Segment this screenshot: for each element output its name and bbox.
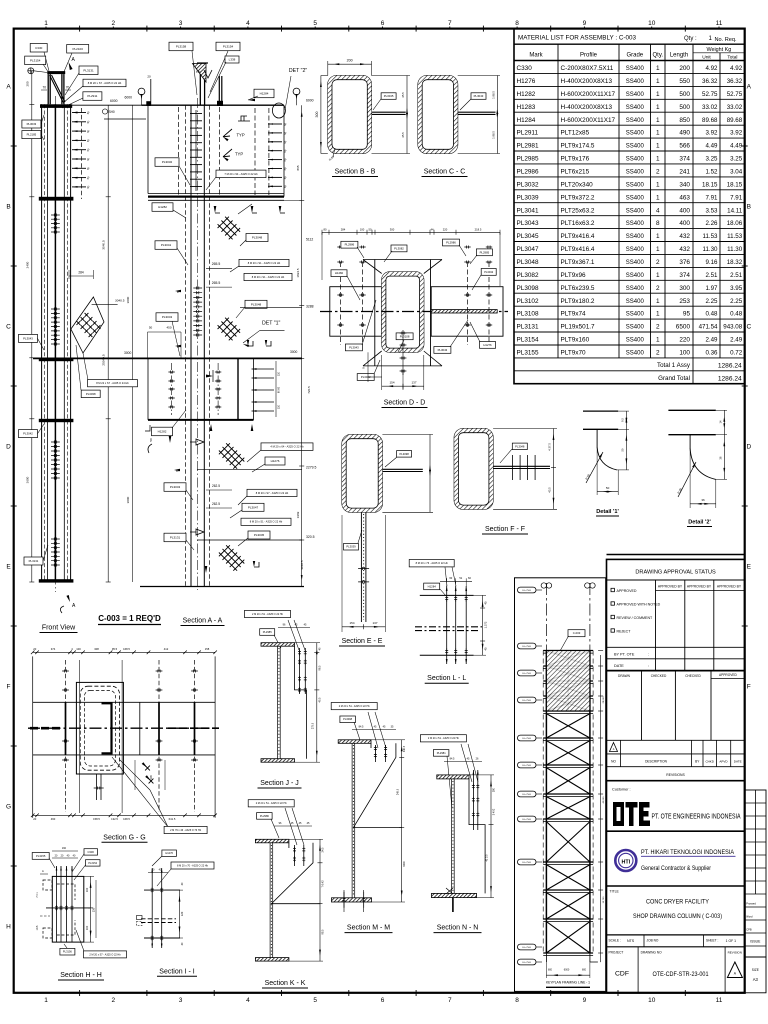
svg-text:SS400: SS400 [626,338,645,344]
svg-text:ISSUE: ISSUE [750,940,761,944]
svg-text:DATE: DATE [734,759,742,763]
svg-text:7: 7 [448,20,452,27]
svg-text:33.02: 33.02 [727,104,743,111]
svg-text:7 4 1: 7 4 1 [36,892,39,898]
svg-text:D: D [6,443,11,450]
svg-text:PLT9x180.2: PLT9x180.2 [561,298,595,305]
svg-text:PL3033: PL3033 [27,122,37,126]
section K-K web [269,843,271,958]
front view left tag PL2185 [22,131,41,139]
section D-D label H1282 [331,270,347,277]
svg-text:PL3032: PL3032 [162,160,173,164]
svg-text:Section E - E: Section E - E [342,638,383,645]
svg-text:2.49: 2.49 [730,337,743,344]
svg-text:EL+7500: EL+7500 [523,673,532,675]
svg-text:DRAWING NO: DRAWING NO [641,950,662,954]
section A-A arrows row3 [210,424,213,431]
svg-text:9: 9 [583,997,587,1004]
svg-text:2: 2 [656,324,660,331]
svg-text:JOB NO: JOB NO [647,939,659,943]
svg-text:H: H [6,923,11,930]
table header row [514,60,745,62]
section E-E stem bolt ticks [358,567,369,570]
svg-text:45,000: 45,000 [603,796,605,803]
svg-text:6000: 6000 [110,99,118,103]
keyplan bottom leader [590,961,601,963]
front view bolt tick clusters [51,214,60,217]
svg-text:10.5: 10.5 [36,925,39,930]
svg-text:PLT9x372.2: PLT9x372.2 [561,194,595,201]
svg-text:4.92: 4.92 [705,65,718,72]
svg-text:100: 100 [679,350,690,357]
svg-text:EL+7500: EL+7500 [523,700,532,702]
svg-text:3000: 3000 [124,351,132,355]
svg-text:220: 220 [679,337,690,344]
front view label PL2911 [83,92,102,101]
svg-text:1: 1 [656,311,660,318]
section A-A label PL3032 [155,158,179,167]
svg-text:34.5: 34.5 [322,847,325,852]
svg-text:4: 4 [246,997,250,1004]
svg-text:PLT9x174.5: PLT9x174.5 [561,143,595,150]
svg-text:PL2911: PL2911 [87,94,97,98]
svg-text:230: 230 [92,907,96,912]
svg-text:SS400: SS400 [626,157,645,163]
svg-text:50: 50 [149,326,153,330]
svg-text:PL3043: PL3043 [349,345,359,349]
svg-text:8 M 20 x S1 - A325 O 22 Hb: 8 M 20 x S1 - A325 O 22 Hb [248,261,281,265]
svg-text:284: 284 [341,227,346,231]
svg-text:3000: 3000 [126,496,130,503]
svg-text:SS400: SS400 [626,260,645,266]
svg-text:1 OF 1: 1 OF 1 [726,939,736,943]
svg-text:8 M 20 x S7 - A325 O 22 Hb: 8 M 20 x S7 - A325 O 22 Hb [256,491,289,495]
section L-L top dims [446,578,448,592]
svg-text:PLT9x367.1: PLT9x367.1 [561,259,595,266]
section A-A label boltspec r1 [239,259,289,266]
svg-text:1 88.5: 1 88.5 [492,131,496,139]
section E-E ext dim right [429,435,431,513]
detail 2 dim right lower [716,478,727,480]
front view right dimension line [107,105,109,582]
svg-text:SS400: SS400 [626,170,645,176]
svg-text:2: 2 [656,169,660,176]
section A-A level line 3288 [240,307,302,309]
front view column hidden lines [44,104,46,582]
svg-text:1: 1 [709,35,713,42]
section A-A label boltspec64 [261,443,313,451]
svg-text:154: 154 [389,381,394,385]
svg-text:4.49: 4.49 [730,143,743,150]
section D-D label H1276 [480,342,496,349]
svg-text:PL2911: PL2911 [517,130,539,137]
svg-text:PL3043: PL3043 [170,485,181,489]
approval by columns [655,580,657,671]
svg-text::: : [648,653,649,657]
svg-text:F: F [747,683,751,690]
section G-G small stem below [96,774,98,800]
datum bubble left [138,88,145,95]
svg-text:PL3082: PL3082 [394,246,404,250]
svg-text:PLT9x416.4: PLT9x416.4 [561,246,595,253]
svg-text:CHKD: CHKD [705,759,714,763]
svg-text:2: 2 [111,997,115,1004]
section L-L top plate line [420,594,474,596]
svg-text:PLT16x63.2: PLT16x63.2 [561,220,595,227]
section A-A centerline [197,98,199,590]
svg-text:50: 50 [369,227,372,231]
svg-text:DET "1": DET "1" [262,321,280,327]
svg-text:137: 137 [372,621,377,625]
svg-text:1969: 1969 [296,511,300,518]
svg-text:REJECT: REJECT [617,630,632,634]
datum bubble right [293,88,300,95]
size box [745,957,766,993]
svg-text:20: 20 [33,817,36,821]
svg-text:154: 154 [349,621,354,625]
svg-text:1: 1 [656,143,660,150]
svg-text:2: 2 [111,20,115,27]
section M-M bolt columns [374,745,376,762]
svg-text:6000: 6000 [306,99,314,103]
section A-A weld symbol top [238,116,250,121]
svg-text:308: 308 [94,647,99,651]
section D-D label PL3082 [391,245,407,252]
svg-text:1: 1 [656,78,660,85]
keyplan column tag C-003 [568,630,585,637]
svg-text:PT. HIKARI TEKNOLOGI INDONESIA: PT. HIKARI TEKNOLOGI INDONESIA [641,849,734,856]
detail 2 flange cut line [689,435,691,448]
section D-D centerline [320,311,508,313]
svg-text:C-003 = 1 REQ'D: C-003 = 1 REQ'D [98,614,161,623]
svg-text:70: 70 [43,86,47,90]
keyplan elevation tags [518,587,537,593]
svg-text:SS400: SS400 [626,247,645,253]
section A-A cap dim 20 [150,79,152,105]
svg-text:8 M 22 x S7 - A325 O 24 Hb: 8 M 22 x S7 - A325 O 24 Hb [96,381,129,385]
svg-text:SIZE: SIZE [752,968,759,972]
svg-text:Length: Length [670,53,688,59]
svg-text:PLT9x176: PLT9x176 [561,156,590,163]
section B-B tube [328,76,372,154]
svg-text:EL+7500: EL+7500 [523,794,532,796]
section F-F gusset plate [493,465,550,467]
svg-text:18.32: 18.32 [727,259,743,266]
section A-A extra dashed vertical [219,107,221,195]
front view dim 3040.5 [92,304,118,306]
section I-I bolt verticals [151,868,153,948]
svg-text:DRAWN: DRAWN [618,674,631,678]
svg-text:432: 432 [679,246,690,253]
svg-text:C330: C330 [35,46,43,50]
svg-text:2 M 20 x 51 - A325 O 22 Hb: 2 M 20 x 51 - A325 O 22 Hb [339,705,371,708]
section A-A column hidden lines [185,105,187,586]
svg-text:374: 374 [679,156,690,163]
section N-N bottom flange [432,893,477,897]
keyplan grid bubbles [541,583,546,588]
svg-text:11.30: 11.30 [702,246,718,253]
svg-text:36.32: 36.32 [702,78,718,85]
svg-text:641.5: 641.5 [169,817,176,821]
section G-G C channel [102,703,112,753]
svg-text:H1283: H1283 [517,104,536,111]
detail 1 dim right upper [618,410,629,412]
detail 1 flange cut line [596,429,598,447]
svg-text:2.26: 2.26 [705,220,718,227]
svg-text:1: 1 [44,20,48,27]
front view label PL3038 [81,390,100,398]
front view flag leaders [83,353,88,380]
svg-text:H-600X200X11X17: H-600X200X11X17 [561,91,616,98]
svg-text:1286.24: 1286.24 [718,362,742,369]
svg-text:H1284: H1284 [260,92,269,96]
svg-text:PL2986: PL2986 [517,169,539,176]
front view top cap stubs [47,74,49,104]
svg-text:1286.24: 1286.24 [718,375,742,382]
section M-M bottom flange [332,898,372,902]
svg-text:137: 137 [411,381,416,385]
svg-text:96.5: 96.5 [318,665,321,670]
svg-text:6000: 6000 [564,969,570,972]
svg-text:100: 100 [85,887,89,892]
svg-text:110: 110 [278,371,281,376]
front view right bolt ladder [72,112,86,114]
section A-A label H1276 [265,457,285,465]
svg-text:1: 1 [656,65,660,72]
svg-text:SHEET :: SHEET : [706,939,718,943]
svg-text:28,000: 28,000 [603,696,605,703]
svg-text:2: 2 [656,350,660,357]
svg-text:41 3.5: 41 3.5 [486,854,489,862]
section A-A sect arrow B low [253,561,255,567]
svg-text:95.5: 95.5 [112,647,118,651]
svg-text:265.5: 265.5 [212,281,221,285]
svg-text:10: 10 [648,997,656,1004]
section A-A sect arrow C [174,469,180,471]
svg-text:PLT9x70: PLT9x70 [561,350,587,357]
svg-text:40.5: 40.5 [318,697,321,702]
svg-text:CHECKED: CHECKED [685,674,701,678]
section L-L bottom plate line [420,654,474,656]
section D-D left beam rect [330,287,382,337]
svg-text:NO: NO [611,759,616,763]
svg-text:PL3045: PL3045 [384,94,394,98]
svg-text:20: 20 [33,647,36,651]
svg-text:0.48: 0.48 [730,311,743,318]
section H-H right dims [90,876,92,942]
svg-text:25049.5: 25049.5 [102,354,106,365]
project row [607,946,745,948]
svg-text:APPROVED BY: APPROVED BY [717,585,742,589]
svg-text:PL3154: PL3154 [517,337,539,344]
second dimension line [131,105,133,582]
HTI logo circle [615,850,636,871]
keyplan truss X bracing [546,714,590,738]
section D-D left bolt lines [340,262,342,345]
section A-A lower bracket dims [145,425,150,431]
svg-text:18.06: 18.06 [727,220,743,227]
svg-text:KEYPLAN FRAMING LINE - 1: KEYPLAN FRAMING LINE - 1 [546,980,590,984]
svg-text:HTI: HTI [621,859,630,865]
svg-text:1.97: 1.97 [705,285,718,292]
svg-text:253: 253 [679,298,690,305]
svg-text:200: 200 [347,59,353,63]
svg-text:4.49: 4.49 [705,143,718,150]
section H-H bolt spec label [84,951,127,958]
front view label C330 [30,44,47,53]
svg-text:Total: Total [727,55,737,61]
table totals rows [514,370,745,372]
front view ladder dashed vertical [81,108,83,199]
section J-J bolt spec label [245,610,291,617]
front view center web line [54,104,56,582]
svg-text:14.11: 14.11 [727,207,743,214]
svg-text:PL3098: PL3098 [343,717,353,721]
svg-text:18.15: 18.15 [727,181,743,188]
svg-text:340: 340 [679,181,690,188]
keyplan gridline right [589,583,591,962]
section I-I right dim [179,890,181,938]
svg-text:11.53: 11.53 [702,233,718,240]
section A-A diag cluster 3 [226,443,230,447]
section J-J right dim [316,643,318,763]
svg-text:PL3043: PL3043 [162,315,173,319]
svg-text:3.25: 3.25 [730,156,743,163]
svg-text:2 M 20 x 51 - A325 O 22 Hb: 2 M 20 x 51 - A325 O 22 Hb [428,737,460,740]
svg-text::: : [648,664,649,668]
svg-text:4: 4 [246,20,250,27]
svg-text:1: 1 [656,130,660,137]
svg-text:160: 160 [62,847,67,850]
svg-text:PL3131: PL3131 [83,68,94,72]
svg-text:Weight Kg: Weight Kg [707,47,732,53]
revisions row [607,780,745,782]
svg-text:4 37.5: 4 37.5 [548,443,552,451]
svg-text:PL3158: PL3158 [176,45,187,49]
section A-A weld open arrows [190,439,204,445]
svg-text:7.91: 7.91 [730,194,743,201]
section N-N bolt columns [472,770,474,830]
front view splice plate bands [40,104,72,108]
svg-text:110: 110 [278,404,281,409]
detail 2 bottom dim [689,448,691,508]
svg-text:380: 380 [493,787,496,792]
section G-G dim leader box [120,760,150,790]
svg-text:APPROVED BY: APPROVED BY [658,585,683,589]
svg-text:REVISION: REVISION [728,950,742,954]
svg-text:84.5: 84.5 [450,758,455,761]
section B-B label PL3045 [381,93,396,100]
svg-text:284: 284 [78,271,84,275]
svg-text:C: C [176,469,179,473]
section A-A label H1284 [254,89,274,98]
svg-text:PL2981: PL2981 [437,751,447,755]
section D-D bottom left dim [367,352,369,382]
svg-text:PL2100: PL2100 [73,47,84,51]
section M-M web [351,743,353,898]
section A-A level line 320.5 [197,539,302,541]
section N-N web [451,779,453,894]
svg-text:Section I - I: Section I - I [159,968,194,975]
svg-text:300: 300 [390,227,395,231]
keyplan truss chords [545,651,547,954]
svg-text:9: 9 [583,20,587,27]
section A-A mid datum 5112 [150,199,302,201]
svg-text:C: C [746,323,751,330]
svg-text:275.5: 275.5 [312,722,315,729]
section A-A label PL3131 [164,533,186,542]
section A-A bottom datum [140,586,304,588]
detail 1 dim right lower [617,469,629,471]
section G-G bottom dim chain [33,814,215,816]
section K-K bottom flange [255,958,289,962]
section A-A label boltspec r2 [244,273,292,280]
section A-A label PL3154 [216,42,240,51]
svg-text:412: 412 [164,647,169,651]
section A-A label PL3043 [156,313,178,322]
svg-text:8 M 20 x S1 - A325 O 22 Hb: 8 M 20 x S1 - A325 O 22 Hb [250,520,283,524]
svg-text:PL2185: PL2185 [27,133,37,137]
OTE logo [613,802,650,826]
svg-text:2 M 20 x S7 - A325 O 22 Hb: 2 M 20 x S7 - A325 O 22 Hb [89,953,121,956]
svg-text:PL3048: PL3048 [251,302,262,306]
svg-text:Prossed: Prossed [746,902,756,906]
section E-E gusset plate right [382,468,422,470]
section D-D bottom dims [381,355,383,390]
section D-D label PL2986 right [443,239,460,246]
svg-text:8 M 20 x 70 - A325 O 22 Hb: 8 M 20 x 70 - A325 O 22 Hb [177,864,209,867]
section G-G bolt column 2 [158,660,160,812]
svg-text:20: 20 [147,75,151,79]
svg-text:F: F [7,683,11,690]
svg-text:1.52: 1.52 [705,169,718,176]
svg-text:H-600X200X11X17: H-600X200X11X17 [561,117,616,124]
section A-A column solid lines [190,105,192,586]
svg-text:EL+7500: EL+7500 [523,962,532,964]
svg-text:CPB: CPB [746,928,752,932]
svg-text:PLT9x160: PLT9x160 [561,337,590,344]
section G-G dim 2145 [134,760,136,790]
svg-text:8 M 20 x S7 - A325 O 22 Hb: 8 M 20 x S7 - A325 O 22 Hb [88,81,122,85]
section D-D label PL2985 [476,249,492,256]
svg-text:8: 8 [656,220,660,227]
svg-text:8 M 20 x 76 - A325 O 22 Hb: 8 M 20 x 76 - A325 O 22 Hb [416,561,449,565]
section H-H mid line [46,907,90,909]
svg-text:800: 800 [582,969,587,972]
svg-text:374: 374 [51,647,56,651]
svg-text:PL3098: PL3098 [517,285,539,292]
svg-text:0.48: 0.48 [705,311,718,318]
section A-A label L338 [225,56,239,63]
front view cap diagonal brace [50,75,66,102]
section A-A arrows row1 [251,206,254,213]
svg-text:SS400: SS400 [626,299,645,305]
svg-text:BY PT. OTE: BY PT. OTE [614,653,635,657]
svg-text:3.04: 3.04 [730,169,743,176]
svg-text:SS400: SS400 [626,273,645,279]
svg-text:PL2986: PL2986 [260,814,270,818]
svg-text:SS400: SS400 [626,208,645,214]
svg-text:H1282: H1282 [335,271,344,275]
svg-text:100: 100 [360,227,365,231]
svg-text:865: 865 [296,165,300,170]
svg-text:PT. OTE ENGINEERING INDONESIA: PT. OTE ENGINEERING INDONESIA [652,812,741,821]
svg-text:PL3041: PL3041 [517,207,539,214]
svg-text:Customer :: Customer : [612,788,631,792]
right margin strip boxes [745,790,766,957]
svg-text:Section L - L: Section L - L [427,675,466,682]
svg-text:SS400: SS400 [626,195,645,201]
